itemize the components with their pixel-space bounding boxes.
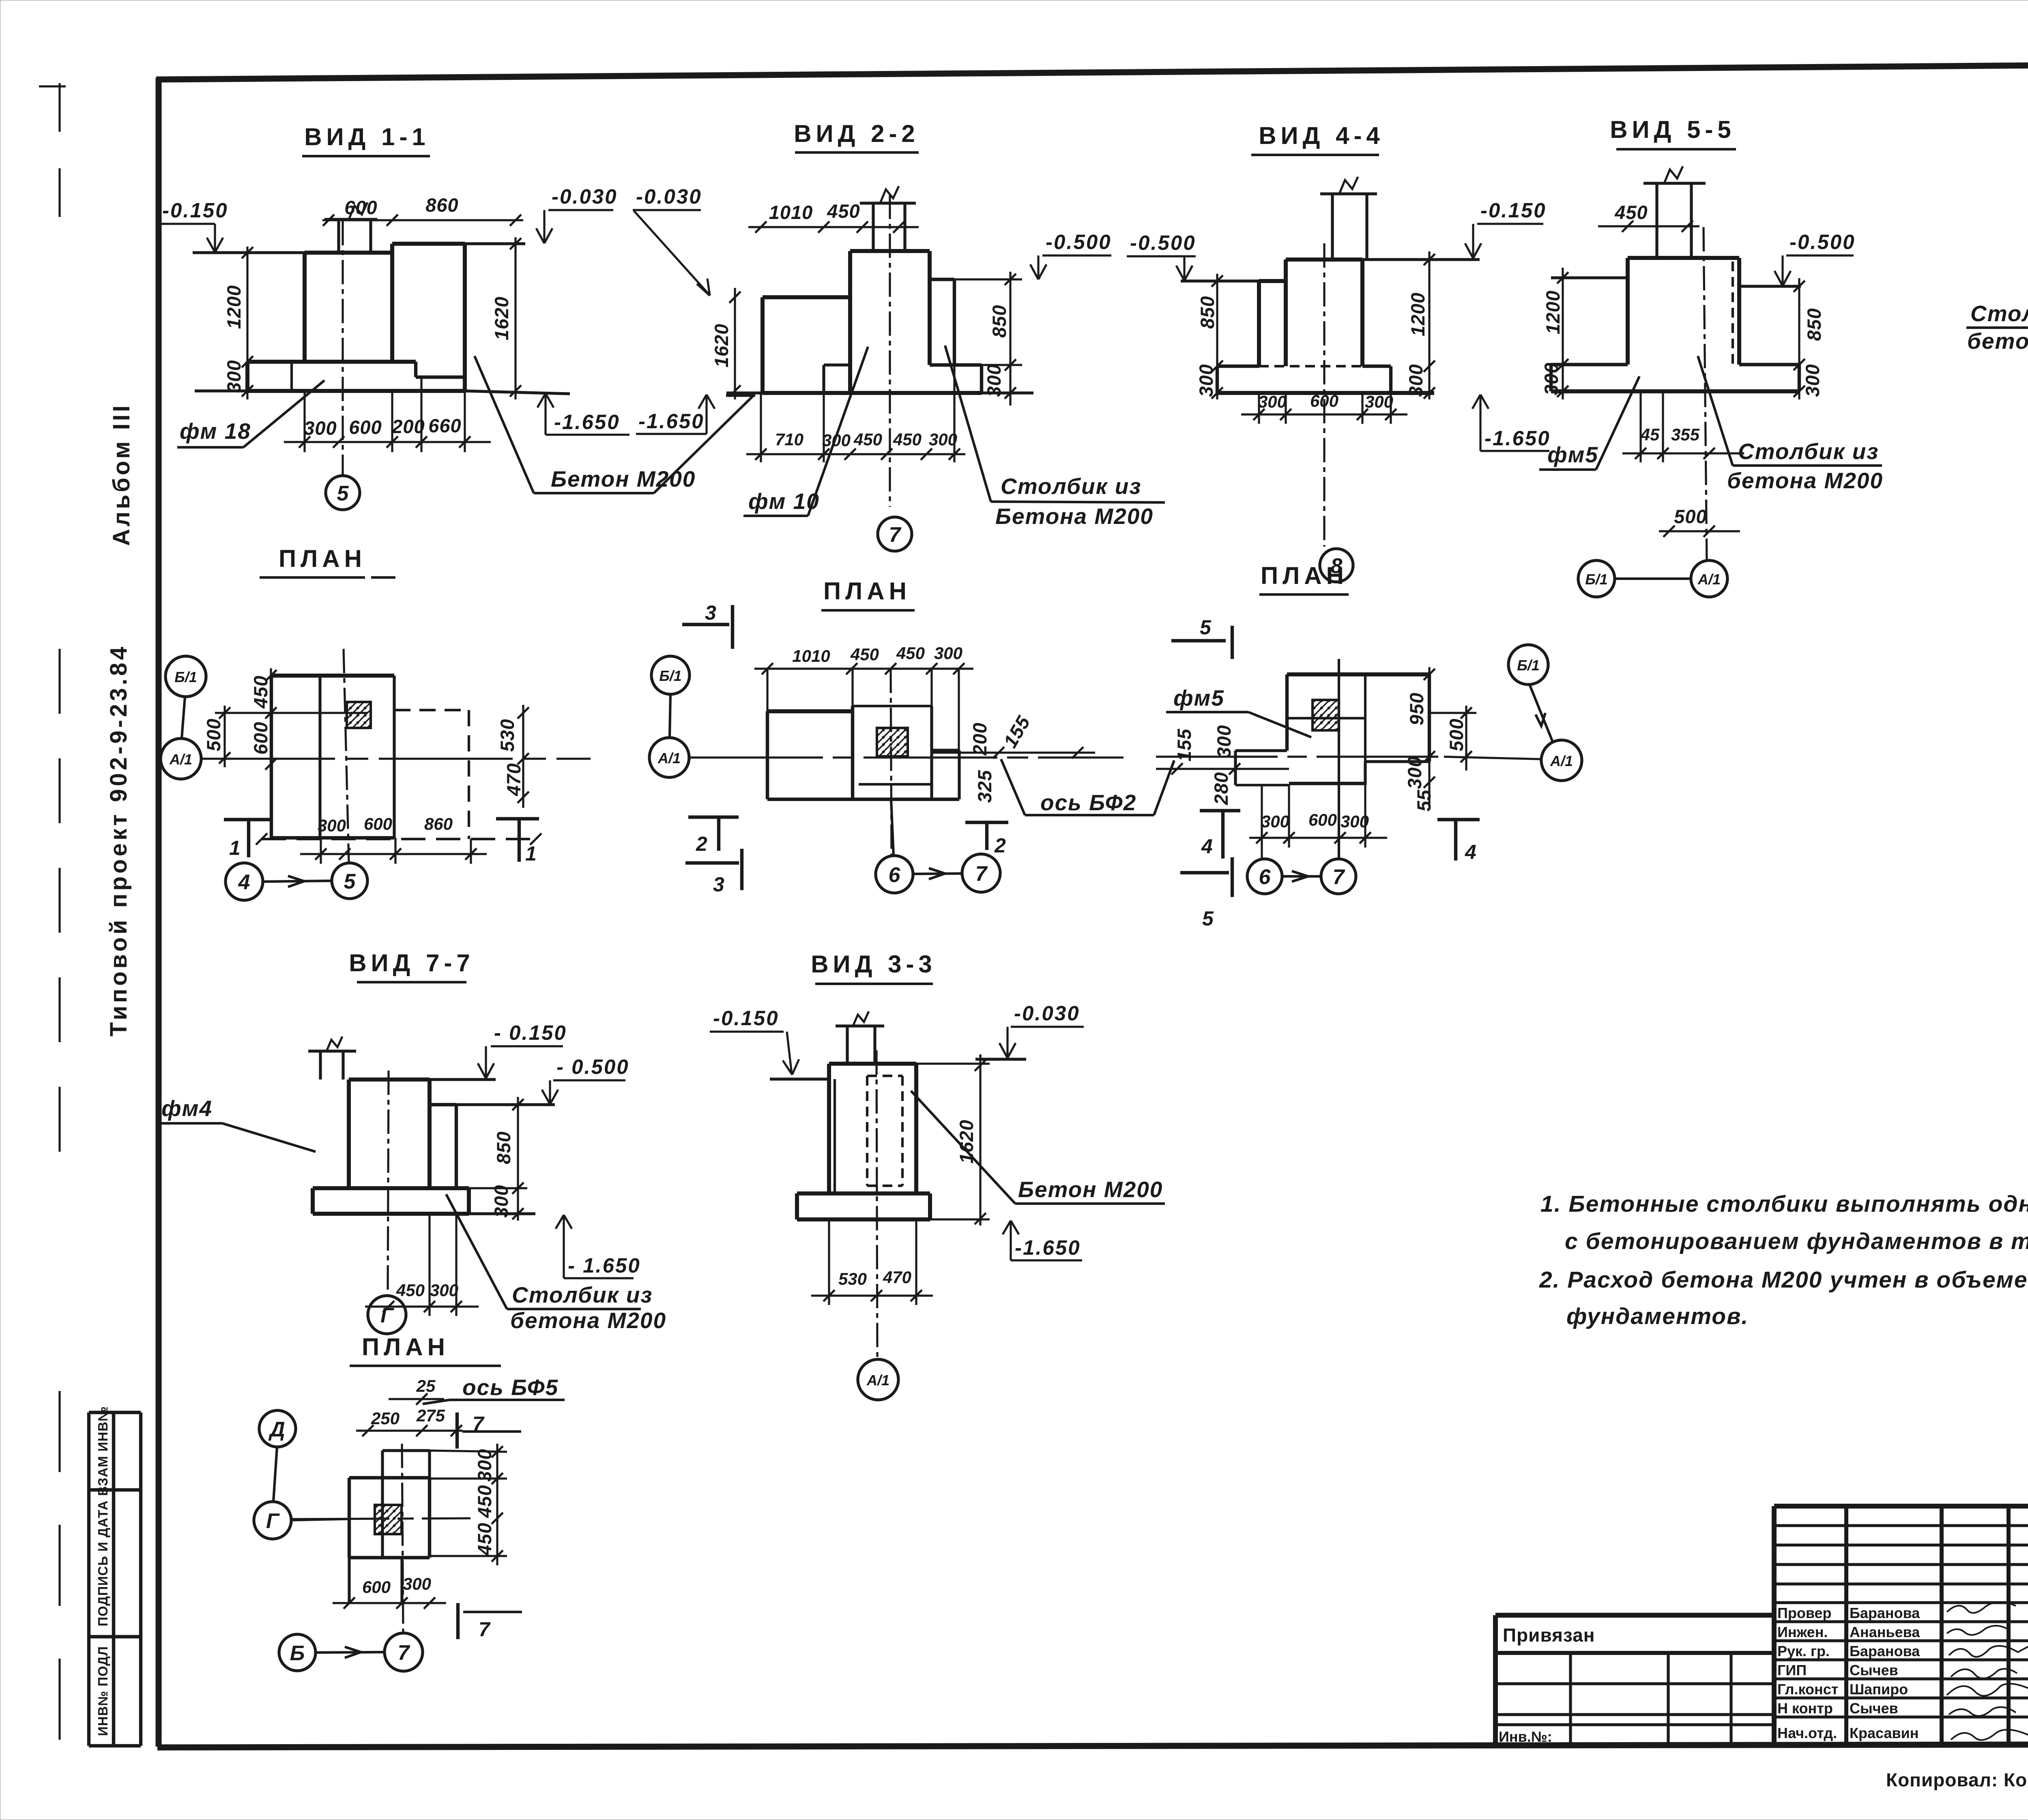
svg-text:Альбом III: Альбом III	[108, 403, 135, 546]
ground lines 4-4	[1181, 279, 1259, 282]
svg-text:-1.650: -1.650	[1015, 1236, 1081, 1259]
svg-text:710: 710	[775, 430, 803, 449]
dim right 850/300 7-7	[517, 1097, 519, 1221]
svg-text:Баранова: Баранова	[1850, 1643, 1920, 1659]
svg-text:Б: Б	[290, 1642, 305, 1665]
svg-text:Красавин: Красавин	[1850, 1725, 1918, 1741]
footing 5-5	[1551, 363, 1628, 366]
svg-text:Инжен.: Инжен.	[1777, 1624, 1828, 1640]
dim right 1620	[514, 237, 516, 399]
plan1 axis lines	[201, 758, 591, 760]
svg-text:бетона М200: бетона М200	[1967, 328, 2028, 354]
left step 4-4	[1259, 279, 1286, 283]
svg-text:860: 860	[424, 814, 453, 833]
hidden stolbik 3-3	[866, 1076, 868, 1186]
svg-text:Баранова: Баранова	[1850, 1605, 1920, 1621]
svg-text:500: 500	[1446, 718, 1467, 751]
svg-text:300: 300	[490, 1185, 512, 1217]
plan3 outline	[1287, 672, 1429, 676]
section marks 1-1 plan1	[224, 818, 271, 821]
svg-text:450: 450	[474, 1522, 495, 1556]
foundation block 1-1	[193, 251, 305, 254]
svg-text:Б/1: Б/1	[1517, 657, 1540, 674]
hidden footing top 4-4	[1259, 365, 1362, 367]
concrete label M200	[475, 356, 534, 493]
axis circles B/1 A/1 plan1	[165, 656, 206, 697]
column stub 4-4	[1331, 194, 1334, 260]
svg-text:Бетона М200: Бетона М200	[995, 504, 1154, 529]
column stub 5-5	[1655, 183, 1658, 258]
svg-text:6: 6	[1259, 865, 1271, 889]
svg-text:ПЛАН: ПЛАН	[362, 1333, 449, 1361]
svg-text:Шапиро: Шапиро	[1850, 1681, 1908, 1698]
section mark 7 bottom plan5	[456, 1603, 460, 1639]
svg-text:Столбик из: Столбик из	[1970, 301, 2028, 326]
signatures	[1947, 1602, 2016, 1613]
svg-text:-0.150: -0.150	[162, 199, 228, 222]
plan2 axes	[689, 756, 1124, 758]
svg-text:-0.030: -0.030	[1014, 1002, 1080, 1025]
svg-text:ВИД 7-7: ВИД 7-7	[349, 949, 475, 977]
svg-text:6: 6	[889, 863, 901, 887]
svg-text:280: 280	[1210, 772, 1232, 805]
svg-text:300: 300	[1341, 812, 1369, 831]
svg-text:- 0.150: - 0.150	[494, 1021, 567, 1044]
svg-text:-1.650: -1.650	[1484, 427, 1551, 450]
svg-text:300: 300	[318, 816, 346, 835]
svg-text:300: 300	[1405, 364, 1426, 397]
plan5 lower extension	[348, 1558, 350, 1603]
svg-text:250: 250	[371, 1409, 400, 1428]
svg-text:300: 300	[1261, 812, 1289, 831]
axis circles 6 7 plan2	[891, 799, 894, 856]
svg-text:с бетонированием фундаментов в: с бетонированием фундаментов в той же оп…	[1565, 1228, 2028, 1254]
svg-text:ВИД 2-2: ВИД 2-2	[794, 120, 919, 147]
svg-text:300: 300	[223, 360, 245, 393]
svg-text:300: 300	[929, 430, 957, 449]
svg-text:Сычев: Сычев	[1850, 1700, 1898, 1717]
svg-text:-1.650: -1.650	[554, 410, 620, 434]
dim bottom 710 300 450 450 300	[746, 453, 965, 455]
svg-text:200: 200	[391, 416, 425, 437]
svg-text:Д: Д	[268, 1418, 285, 1441]
svg-text:ИНВ№ ПОДЛ: ИНВ№ ПОДЛ	[95, 1646, 110, 1736]
section mark 7 top plan5	[455, 1412, 459, 1449]
svg-text:155: 155	[999, 712, 1034, 751]
plan1 bottom dims 300 600 860	[300, 853, 487, 855]
section mark 5 bottom	[1180, 871, 1229, 874]
plan1 outline	[271, 674, 394, 678]
plan2 outline	[767, 709, 853, 713]
plan3 bottom dims 300 600 300	[1249, 837, 1387, 839]
axis circle A/1 3-3	[858, 1359, 898, 1400]
os BF5 label plan5	[423, 1400, 449, 1404]
svg-text:600: 600	[1308, 810, 1337, 829]
svg-text:850: 850	[1197, 296, 1218, 328]
axis circle 5	[326, 476, 360, 510]
svg-text:7: 7	[975, 862, 988, 886]
svg-text:Б/1: Б/1	[659, 667, 682, 684]
right stolbik 7-7	[430, 1103, 456, 1106]
svg-text:Инв.№:: Инв.№:	[1499, 1728, 1552, 1745]
svg-text:300: 300	[1365, 392, 1393, 411]
axis circles 6 7 plan3	[1247, 859, 1282, 894]
svg-text:500: 500	[1674, 506, 1707, 527]
dim top 1010/450	[748, 226, 919, 228]
section marks 2 plan2	[688, 816, 739, 819]
svg-text:600: 600	[364, 814, 392, 833]
plan5 axes	[292, 1518, 470, 1519]
plan1 right dims 530 470	[522, 705, 524, 808]
svg-text:-0.150: -0.150	[713, 1007, 779, 1030]
svg-text:А/1: А/1	[169, 751, 192, 768]
svg-text:530: 530	[838, 1269, 867, 1288]
svg-text:660: 660	[428, 415, 461, 436]
paper edge line	[58, 83, 60, 227]
plan1 left dims 500 450 600	[223, 706, 226, 767]
svg-text:Столбик из: Столбик из	[1001, 474, 1141, 499]
svg-text:Гл.конст: Гл.конст	[1777, 1681, 1838, 1698]
svg-text:850: 850	[493, 1131, 514, 1164]
svg-text:300: 300	[304, 417, 337, 439]
centre axis 2-2	[889, 195, 891, 507]
svg-text:300: 300	[430, 1281, 458, 1300]
svg-text:450: 450	[1614, 202, 1648, 223]
svg-text:ПЛАН: ПЛАН	[823, 577, 911, 605]
svg-text:7: 7	[889, 523, 902, 547]
title block	[1495, 1506, 2028, 1792]
privyazan block	[1495, 1613, 1774, 1618]
svg-text:Столбик из: Столбик из	[1738, 439, 1879, 464]
hatched pad plan5	[375, 1505, 402, 1534]
column stub 2-2	[872, 203, 874, 251]
svg-text:бетона М200: бетона М200	[510, 1308, 666, 1333]
svg-text:Бетон М200: Бетон М200	[551, 466, 696, 491]
block 7-7	[349, 1077, 430, 1082]
svg-text:-1.650: -1.650	[638, 410, 705, 433]
section mark 3 bottom	[685, 861, 739, 865]
svg-text:- 1.650: - 1.650	[568, 1254, 641, 1277]
svg-text:Н контр: Н контр	[1777, 1700, 1833, 1717]
plan1 right extension	[394, 709, 469, 711]
axis circles 4 5 plan1	[226, 863, 263, 900]
svg-text:950: 950	[1406, 692, 1427, 725]
svg-text:ПЛАН: ПЛАН	[1261, 562, 1348, 589]
svg-text:45: 45	[1640, 425, 1660, 444]
svg-text:600: 600	[344, 197, 377, 218]
column stub above ground	[337, 219, 340, 253]
svg-text:Копировал: Коршунова: Копировал: Коршунова	[1886, 1769, 2028, 1790]
svg-text:300: 300	[1404, 756, 1425, 789]
svg-text:ГИП: ГИП	[1777, 1662, 1807, 1678]
axis circles B/1 A/1	[1578, 560, 1615, 597]
right step 2-2	[930, 278, 954, 281]
dim 500	[1659, 530, 1740, 532]
dim bottom 300 600 200 660	[284, 441, 491, 443]
svg-text:ВИД 3-3: ВИД 3-3	[811, 951, 937, 978]
svg-text:5: 5	[1200, 616, 1212, 639]
svg-text:155: 155	[1173, 728, 1195, 761]
axis circles B 7 plan5	[279, 1634, 316, 1671]
frame top	[156, 62, 2028, 79]
svg-text:Б/1: Б/1	[174, 669, 197, 685]
svg-text:3: 3	[713, 873, 724, 896]
ground lines 7-7	[395, 1078, 496, 1081]
svg-text:Привязан: Привязан	[1503, 1625, 1595, 1646]
dim bottom 300 600 300	[1241, 413, 1407, 415]
staff table rows	[1774, 1524, 2028, 1527]
svg-text:275: 275	[416, 1406, 445, 1425]
svg-text:2: 2	[696, 833, 707, 855]
svg-text:-0.030: -0.030	[636, 185, 702, 208]
svg-text:А/1: А/1	[1697, 571, 1721, 588]
svg-text:Рук. гр.: Рук. гр.	[1777, 1643, 1830, 1659]
hatched pad plan2	[877, 728, 908, 756]
footing 2-2	[930, 363, 982, 367]
dim right 1620 3-3	[979, 1054, 981, 1225]
dim right 850/300	[1009, 272, 1011, 406]
svg-text:-0.500: -0.500	[1046, 230, 1112, 253]
plan3 axes	[1156, 755, 1444, 758]
svg-text:200: 200	[969, 722, 990, 755]
svg-text:1620: 1620	[711, 324, 732, 368]
svg-text:325: 325	[974, 770, 995, 803]
dim right 1200/300	[1428, 251, 1430, 399]
svg-text:1200: 1200	[1542, 290, 1564, 335]
svg-text:850: 850	[988, 305, 1010, 337]
svg-text:- 0.500: - 0.500	[556, 1055, 629, 1078]
svg-text:7: 7	[1333, 865, 1345, 889]
svg-text:1: 1	[229, 837, 241, 859]
os BF2 label	[1001, 759, 1025, 815]
left margin vertical texts	[105, 403, 135, 1037]
svg-text:Нач.отд.: Нач.отд.	[1777, 1725, 1837, 1741]
svg-text:300: 300	[1213, 725, 1235, 758]
plan2 right dims	[932, 751, 1095, 753]
stub 7-7	[319, 1051, 322, 1080]
dim left 850/300	[1216, 274, 1218, 399]
concrete column 1-1	[392, 242, 465, 246]
centre axis 4-4	[1323, 243, 1325, 547]
frame bottom	[157, 1744, 2028, 1747]
svg-text:600: 600	[250, 721, 271, 754]
svg-text:5: 5	[344, 870, 356, 893]
svg-text:355: 355	[1671, 425, 1700, 444]
svg-text:300: 300	[1802, 364, 1823, 397]
svg-text:1010: 1010	[792, 646, 830, 665]
hatched pad plan3	[1313, 700, 1339, 730]
svg-text:ПЛАН: ПЛАН	[279, 545, 366, 572]
footing 1-1	[247, 360, 416, 364]
svg-text:850: 850	[1803, 308, 1825, 341]
hatched pad plan1	[347, 702, 371, 728]
svg-text:ВЗАМ ИНВ№: ВЗАМ ИНВ№	[95, 1406, 110, 1496]
svg-text:3: 3	[705, 601, 716, 624]
svg-text:1620: 1620	[491, 296, 512, 341]
svg-text:фм 18: фм 18	[180, 419, 251, 444]
dim 450 top	[1598, 225, 1699, 227]
svg-text:4: 4	[1465, 841, 1476, 863]
svg-text:300: 300	[474, 1449, 495, 1481]
svg-text:1200: 1200	[1407, 292, 1429, 337]
svg-text:ось БФ5: ось БФ5	[462, 1375, 559, 1400]
svg-text:1200: 1200	[223, 285, 245, 329]
column 4-4	[1286, 258, 1362, 262]
svg-text:450: 450	[850, 645, 879, 664]
section marks 4 plan3	[1200, 809, 1240, 812]
svg-text:450: 450	[896, 644, 925, 663]
svg-text:300: 300	[983, 364, 1005, 397]
centre axis 3-3	[877, 1050, 877, 1358]
svg-text:300: 300	[934, 644, 962, 663]
svg-text:600: 600	[362, 1577, 391, 1597]
svg-text:ВИД 5-5: ВИД 5-5	[1610, 116, 1736, 143]
ground lines 5-5	[1551, 276, 1628, 279]
svg-text:1. Бетонные столбики выполнять: 1. Бетонные столбики выполнять одновреме…	[1540, 1191, 2028, 1217]
svg-text:Столбик из: Столбик из	[512, 1282, 653, 1307]
staff table outer	[1774, 1504, 2028, 1509]
svg-text:Г: Г	[266, 1509, 280, 1533]
section mark 3 top	[682, 623, 729, 626]
footing 3-3	[797, 1191, 930, 1195]
svg-text:фм5: фм5	[1173, 685, 1225, 710]
svg-text:4: 4	[1201, 835, 1213, 858]
left mini table	[89, 1406, 141, 1746]
svg-text:450: 450	[474, 1485, 495, 1518]
plan3 right dims 950 500 300 55	[1428, 667, 1430, 807]
dim left 1200/300	[246, 247, 248, 399]
axis circles B/1 A/1 plan2	[651, 656, 690, 694]
centre axis 7-7	[388, 1071, 389, 1294]
axis circle 8	[1320, 549, 1353, 582]
frame left	[156, 78, 162, 1747]
dim right 850/300	[1798, 278, 1800, 399]
svg-text:Ананьева: Ананьева	[1850, 1624, 1920, 1640]
svg-text:-0.500: -0.500	[1130, 231, 1196, 254]
notes	[1539, 1191, 2028, 1329]
svg-text:7: 7	[398, 1641, 410, 1665]
dim top 600/860	[322, 219, 523, 221]
svg-text:4: 4	[238, 871, 250, 894]
svg-text:450: 450	[893, 430, 922, 449]
level -1.650 3-3	[1003, 1221, 1019, 1234]
svg-text:2: 2	[994, 834, 1006, 857]
ground lines 3-3	[770, 1077, 829, 1080]
svg-text:2. Расход бетона М200 учтен в: 2. Расход бетона М200 учтен в объеме бет…	[1539, 1267, 2028, 1293]
axis circles B/1 A/1 plan3	[1508, 645, 1548, 685]
centre axis 1-1	[342, 221, 344, 474]
column 5-5	[1628, 256, 1739, 260]
svg-text:600: 600	[1310, 391, 1338, 410]
svg-text:фм5: фм5	[1547, 442, 1598, 467]
svg-text:600: 600	[349, 416, 382, 438]
svg-text:А/1: А/1	[657, 750, 681, 766]
column 3-3	[829, 1062, 916, 1066]
svg-text:Провер: Провер	[1777, 1605, 1832, 1621]
svg-text:Типовой проект 902-9-23.84: Типовой проект 902-9-23.84	[105, 644, 132, 1037]
axis circle G 7-7	[368, 1296, 406, 1334]
svg-text:1010: 1010	[769, 202, 813, 223]
left block 2-2	[763, 295, 850, 299]
dim bottom 450 300 7-7	[365, 1305, 479, 1307]
svg-text:фундаментов.: фундаментов.	[1566, 1303, 1749, 1329]
svg-text:ПОДПИСЬ И ДАТА: ПОДПИСЬ И ДАТА	[95, 1500, 110, 1626]
stub 3-3	[846, 1026, 849, 1064]
svg-text:Сычев: Сычев	[1850, 1662, 1898, 1678]
svg-text:300: 300	[1540, 362, 1562, 395]
svg-text:500: 500	[203, 718, 224, 751]
concrete column 2-2	[850, 249, 930, 253]
svg-text:-0.500: -0.500	[1790, 230, 1856, 253]
svg-text:А/1: А/1	[866, 1372, 889, 1389]
dim bottom 530 470 3-3	[811, 1294, 933, 1296]
plan5 top small rect	[381, 1451, 384, 1478]
level -1.650 of 4-4	[1472, 395, 1489, 409]
svg-text:300: 300	[403, 1574, 431, 1593]
svg-text:-0.030: -0.030	[552, 185, 618, 208]
svg-text:7: 7	[479, 1618, 491, 1641]
svg-text:-0.150: -0.150	[1480, 199, 1547, 222]
svg-text:фм4: фм4	[161, 1096, 213, 1121]
svg-text:7: 7	[473, 1412, 485, 1435]
svg-text:300: 300	[1195, 364, 1217, 397]
svg-text:ось БФ2: ось БФ2	[1040, 790, 1136, 815]
level -1.650 pair with concrete callout	[537, 393, 554, 408]
svg-text:860: 860	[425, 194, 458, 216]
svg-text:ВИД 1-1: ВИД 1-1	[304, 123, 430, 150]
svg-text:450: 450	[250, 675, 271, 708]
svg-text:Б/1: Б/1	[1585, 571, 1608, 588]
svg-text:300: 300	[1258, 392, 1287, 411]
dim left 1200/300	[1562, 268, 1564, 399]
axis circles D G plan5	[259, 1410, 296, 1447]
svg-text:Бетон М200: Бетон М200	[1018, 1177, 1163, 1202]
plan5 main square	[349, 1476, 430, 1479]
svg-text:5: 5	[337, 482, 349, 505]
svg-text:ВИД 4-4: ВИД 4-4	[1259, 122, 1384, 149]
svg-text:Г: Г	[380, 1304, 394, 1327]
svg-text:450: 450	[827, 200, 860, 222]
plan5 right dims 300 450 450	[496, 1444, 498, 1565]
svg-text:470: 470	[883, 1268, 911, 1287]
svg-text:55: 55	[1413, 790, 1435, 811]
svg-text:5: 5	[1202, 907, 1214, 930]
svg-text:530: 530	[496, 719, 518, 751]
svg-text:25: 25	[416, 1376, 436, 1395]
svg-text:450: 450	[396, 1281, 425, 1300]
section mark 5 top	[1171, 639, 1226, 642]
centre axis 5-5	[1704, 227, 1707, 560]
dim left 1620	[734, 288, 736, 399]
level -1.650 7-7	[556, 1215, 572, 1229]
svg-text:450: 450	[853, 430, 882, 449]
axis circle 7	[878, 517, 912, 551]
svg-text:1: 1	[525, 842, 537, 865]
dims 45 355	[1622, 452, 1744, 454]
footing 7-7	[313, 1186, 469, 1190]
svg-text:А/1: А/1	[1550, 753, 1573, 769]
plan2 top dims 1010 450 450 300	[754, 667, 973, 670]
svg-text:470: 470	[503, 763, 524, 796]
svg-text:бетона М200: бетона М200	[1727, 468, 1883, 493]
